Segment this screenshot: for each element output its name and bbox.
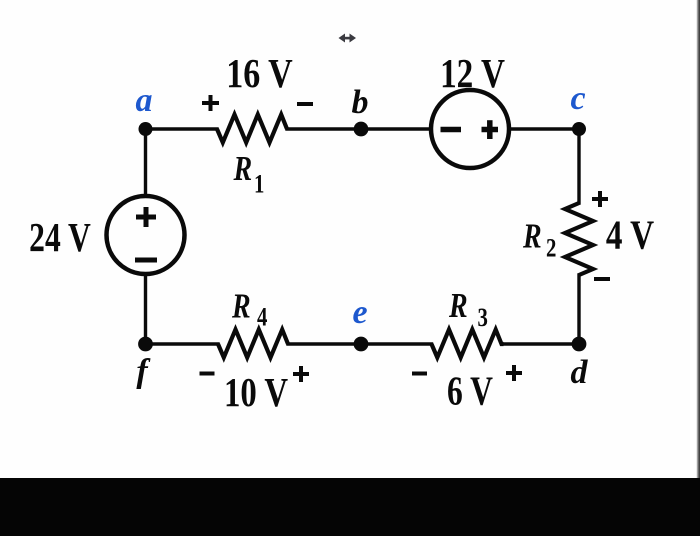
svg-text:4: 4 <box>257 303 268 332</box>
svg-text:e: e <box>352 294 367 331</box>
svg-text:R: R <box>233 149 253 188</box>
svg-text:b: b <box>352 84 369 121</box>
svg-text:R: R <box>231 287 251 326</box>
svg-text:12 V: 12 V <box>440 52 505 97</box>
svg-text:R: R <box>522 217 542 256</box>
svg-text:4 V: 4 V <box>606 213 654 258</box>
svg-text:24 V: 24 V <box>29 214 91 260</box>
svg-text:2: 2 <box>546 234 556 263</box>
svg-text:a: a <box>136 82 153 119</box>
svg-text:10 V: 10 V <box>224 371 288 416</box>
svg-text:d: d <box>571 354 589 391</box>
svg-text:c: c <box>570 80 585 117</box>
svg-text:R: R <box>448 286 468 325</box>
svg-text:6 V: 6 V <box>447 368 493 414</box>
svg-text:3: 3 <box>478 304 488 333</box>
svg-text:16 V: 16 V <box>226 51 292 97</box>
svg-text:1: 1 <box>254 170 264 199</box>
